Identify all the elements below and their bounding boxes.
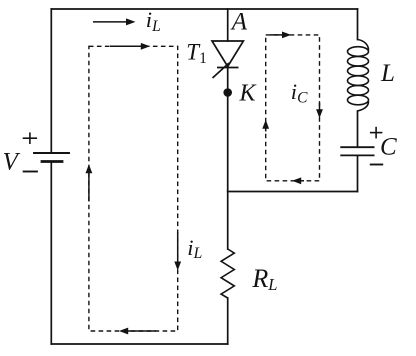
svg-text:K: K [239,81,258,107]
wire top horizontal [51,8,357,10]
wire middle top (A branch) [227,9,229,41]
arrow on i_C loop bottom edge (left) [292,177,304,184]
wire left vertical lower [50,162,52,345]
arrow on left loop bottom edge (left) [119,328,156,335]
svg-text:T1: T1 [186,40,207,67]
arrow on left loop top edge (right) [110,43,150,50]
capacitor C plates [340,147,374,155]
arrow on i_C loop top edge (right) [270,32,291,39]
arrow on left loop left edge (up) [86,164,93,201]
svg-text:V: V [3,148,21,175]
arrow on left loop right edge (down) [174,232,181,271]
wire right below C [357,156,359,192]
svg-text:iC: iC [291,79,308,107]
arrow i_L top solid [93,18,136,25]
wire right vertical upper [357,9,359,40]
plus sign battery [23,132,37,144]
svg-text:iL: iL [187,235,202,262]
svg-text:RL: RL [251,264,277,294]
battery V short plate [42,160,62,163]
dashed loop left (i_L path) [89,46,178,331]
wire middle mid (K to junction) [227,68,229,250]
arrow on i_C loop left edge (up) [262,120,269,132]
minus sign capacitor [370,164,383,166]
inductor L coil [348,40,369,112]
thyristor T1 [212,41,243,78]
svg-text:iL: iL [146,7,161,35]
minus sign battery [23,171,38,173]
dashed loop right (i_C path) [266,35,320,181]
svg-text:A: A [230,9,248,36]
node K dot [223,88,232,97]
battery V long plate [34,152,69,154]
plus sign capacitor [370,127,383,139]
wire middle lower (R_L to bottom) [227,298,229,344]
wire right between L and C [357,111,359,147]
resistor R_L zigzag [221,249,234,298]
wire bottom-right horizontal to junction [228,191,358,193]
wire left vertical upper [50,9,52,153]
arrow on i_C loop right edge (down) [316,103,323,118]
wire bottom horizontal [51,343,227,345]
svg-text:L: L [380,60,395,87]
svg-text:C: C [380,133,397,160]
